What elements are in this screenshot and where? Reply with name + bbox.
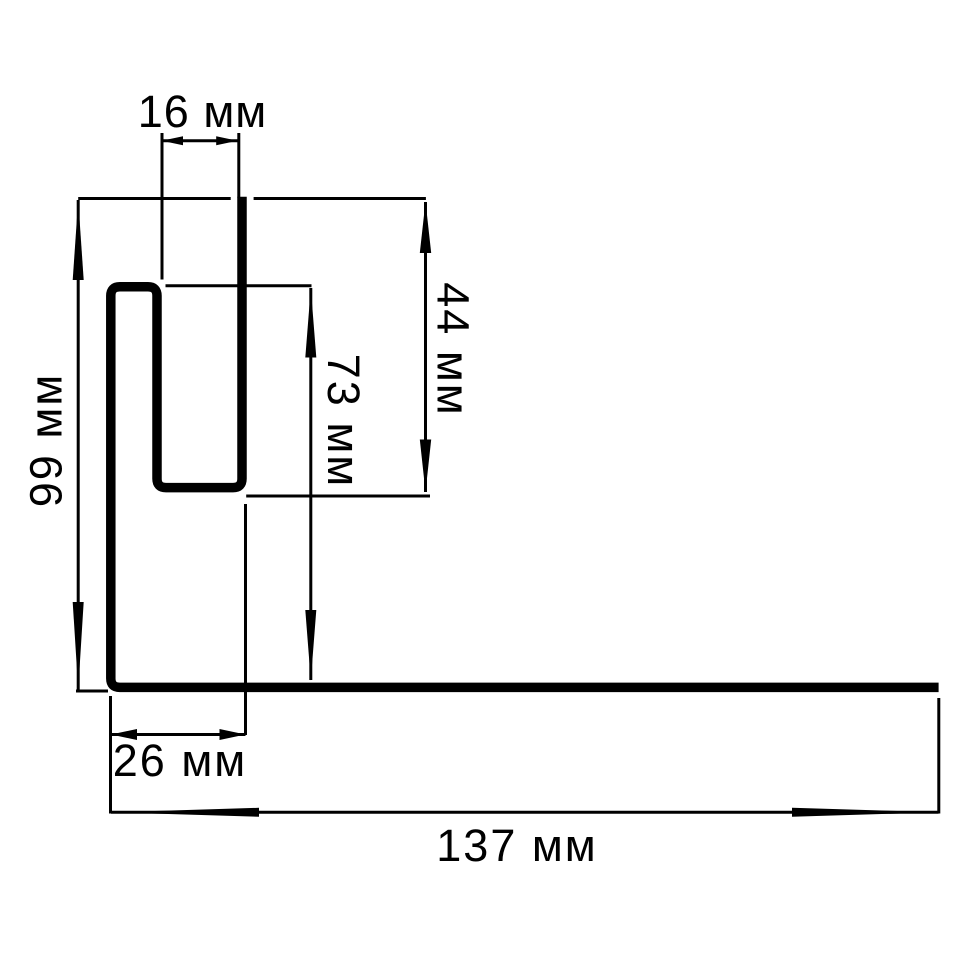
99 mm down arrowhead	[73, 602, 84, 690]
99 mm up arrowhead	[73, 200, 84, 280]
top extension line y=198.5 (right segment)	[254, 197, 426, 200]
44 mm up arrowhead	[420, 202, 431, 254]
44 mm down arrowhead	[420, 440, 431, 493]
16 mm left extension line	[161, 133, 164, 280]
44 mm bottom extension line (from hook bottom)	[246, 495, 430, 498]
137 mm right extension line	[937, 698, 940, 814]
26/137 mm left extension line	[109, 696, 112, 814]
73 mm dimension line	[309, 288, 312, 680]
26 mm right arrowhead	[220, 729, 246, 740]
svg-text:73 мм: 73 мм	[318, 354, 369, 488]
99 mm dimension line	[77, 200, 80, 690]
16 mm dimension line	[162, 139, 238, 142]
svg-text:137 мм: 137 мм	[436, 820, 597, 871]
16 mm left arrowhead	[162, 136, 183, 145]
26 mm right extension line (from hook bottom corner down)	[244, 504, 247, 735]
73 mm down arrowhead	[305, 610, 316, 681]
26 mm dimension line	[111, 733, 246, 736]
99 mm bottom tick	[76, 690, 108, 693]
svg-text:26 мм: 26 мм	[113, 735, 247, 786]
137 mm dimension line	[111, 811, 939, 814]
137 mm right arrowhead	[792, 808, 939, 817]
73 mm top extension line (from hook top to dim line)	[166, 284, 312, 287]
svg-text:44 мм: 44 мм	[428, 282, 479, 416]
44 mm dimension line	[424, 202, 427, 492]
svg-text:99 мм: 99 мм	[21, 373, 72, 507]
73 mm up arrowhead	[305, 288, 316, 358]
profile cross-section (thick outline)	[111, 197, 939, 688]
26 mm left arrowhead	[111, 729, 137, 740]
137 mm left arrowhead	[111, 808, 259, 817]
16 mm right extension line	[237, 133, 240, 198]
16 mm right arrowhead	[216, 136, 237, 145]
svg-text:16 мм: 16 мм	[138, 86, 267, 137]
top extension line y=198.5 (left segment)	[78, 197, 231, 200]
